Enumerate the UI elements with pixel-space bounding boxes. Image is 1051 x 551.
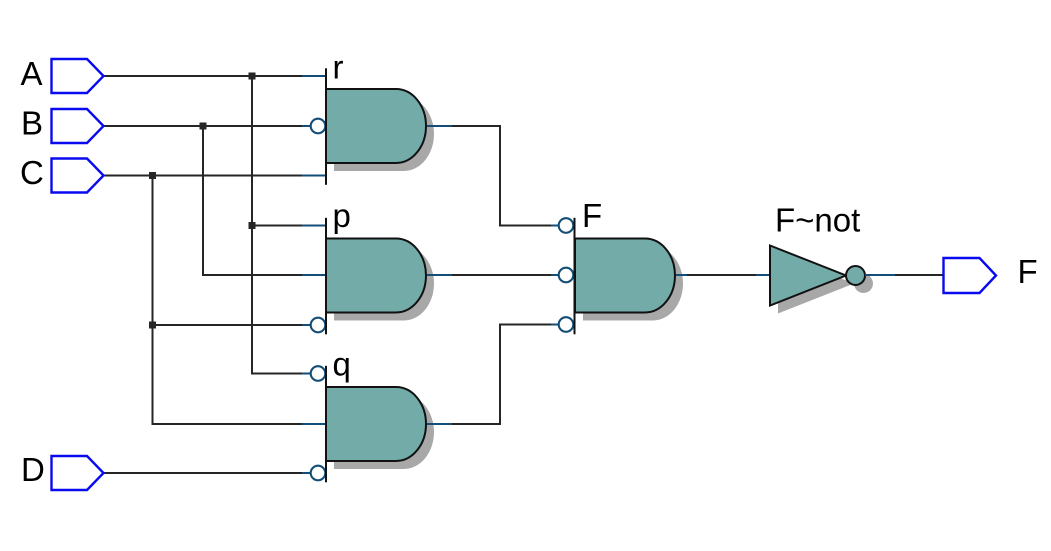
and gate r output stub (426, 125, 452, 127)
and gate F shadow (583, 247, 683, 321)
and gate F inverted top input bubble (559, 218, 574, 233)
label r (333, 49, 344, 86)
and gate F inverted middle input bubble (559, 268, 574, 283)
input pin A (52, 59, 104, 93)
junction node on B (200, 123, 207, 130)
svg-text:F~not: F~not (775, 202, 860, 239)
and gate r inverted B input stub (302, 125, 311, 127)
junction node on A (249, 73, 256, 80)
and gate p output stub (426, 274, 452, 276)
junction node on C (149, 172, 156, 179)
and gate F inverted top input stub (551, 225, 559, 227)
label F (output) (1018, 253, 1038, 290)
wire vertical from C junction (153, 176, 303, 425)
and gate q inverted bottom input stub (302, 472, 311, 474)
wire A row (104, 75, 303, 77)
label C (20, 154, 44, 191)
and gate p inverted bottom input stub (302, 324, 311, 326)
wire branch C to p bottom (153, 324, 303, 326)
and gate F output stub (675, 274, 687, 276)
wire vertical from A junction (252, 76, 302, 374)
output pin F (944, 258, 997, 293)
wire q output to F gate bottom (452, 325, 551, 425)
and gate q stub middle input (302, 423, 326, 425)
and gate F body (575, 218, 675, 334)
and gate r stub C input (302, 175, 326, 177)
and gate q inverted bottom input bubble (311, 466, 326, 481)
and gate p inverted bottom input bubble (311, 318, 326, 333)
label F~not (775, 202, 860, 239)
and gate q output stub (426, 423, 452, 425)
label B (21, 105, 43, 142)
not gate triangle (770, 246, 846, 306)
not gate shadow (778, 254, 873, 314)
label p (333, 197, 351, 234)
svg-text:C: C (20, 154, 44, 191)
label A (21, 55, 43, 92)
svg-text:p: p (333, 197, 351, 234)
wire C row (104, 175, 303, 177)
and gate F inverted middle input stub (551, 274, 559, 276)
and gate F inverted bottom input bubble (559, 317, 574, 332)
and gate q shadow (334, 395, 434, 469)
not gate bubble (846, 266, 865, 285)
and gate q inverted top input bubble (311, 366, 326, 381)
not gate output stub (865, 274, 895, 276)
and gate r body (326, 68, 426, 185)
wire p output to F gate middle (452, 274, 551, 276)
wire F gate output to NOT gate (687, 274, 756, 276)
wire vertical from B junction (203, 126, 302, 275)
svg-text:D: D (21, 451, 45, 488)
label D (21, 451, 45, 488)
and gate q inverted top input stub (302, 373, 311, 375)
label F (gate) (582, 197, 602, 234)
svg-text:F: F (1018, 253, 1038, 290)
svg-text:q: q (333, 345, 351, 382)
and gate r stub A input (302, 75, 326, 77)
and gate p stub top input (302, 225, 326, 227)
label q (333, 345, 351, 382)
junction node C-drop to p bottom (149, 322, 156, 329)
and gate r shadow (334, 97, 434, 171)
wire r output to F gate top (452, 126, 551, 226)
input pin D (52, 456, 104, 490)
junction node A-drop to p top (249, 222, 256, 229)
and gate q body (326, 366, 426, 483)
and gate r inverted B input bubble (311, 119, 326, 134)
svg-text:B: B (21, 105, 43, 142)
svg-text:F: F (582, 197, 602, 234)
not gate input stub (756, 274, 770, 276)
and gate F inverted bottom input stub (551, 324, 559, 326)
wire D row (104, 472, 303, 474)
and gate p body (326, 218, 426, 334)
input pin B (52, 109, 104, 143)
input pin C (52, 159, 104, 193)
wire B row (104, 125, 303, 127)
and gate p shadow (334, 247, 434, 321)
svg-text:A: A (21, 55, 43, 92)
wire branch A to p top (252, 225, 302, 227)
wire NOT gate to output pin (895, 274, 943, 276)
svg-text:r: r (333, 49, 344, 86)
and gate p stub middle input (302, 274, 326, 276)
